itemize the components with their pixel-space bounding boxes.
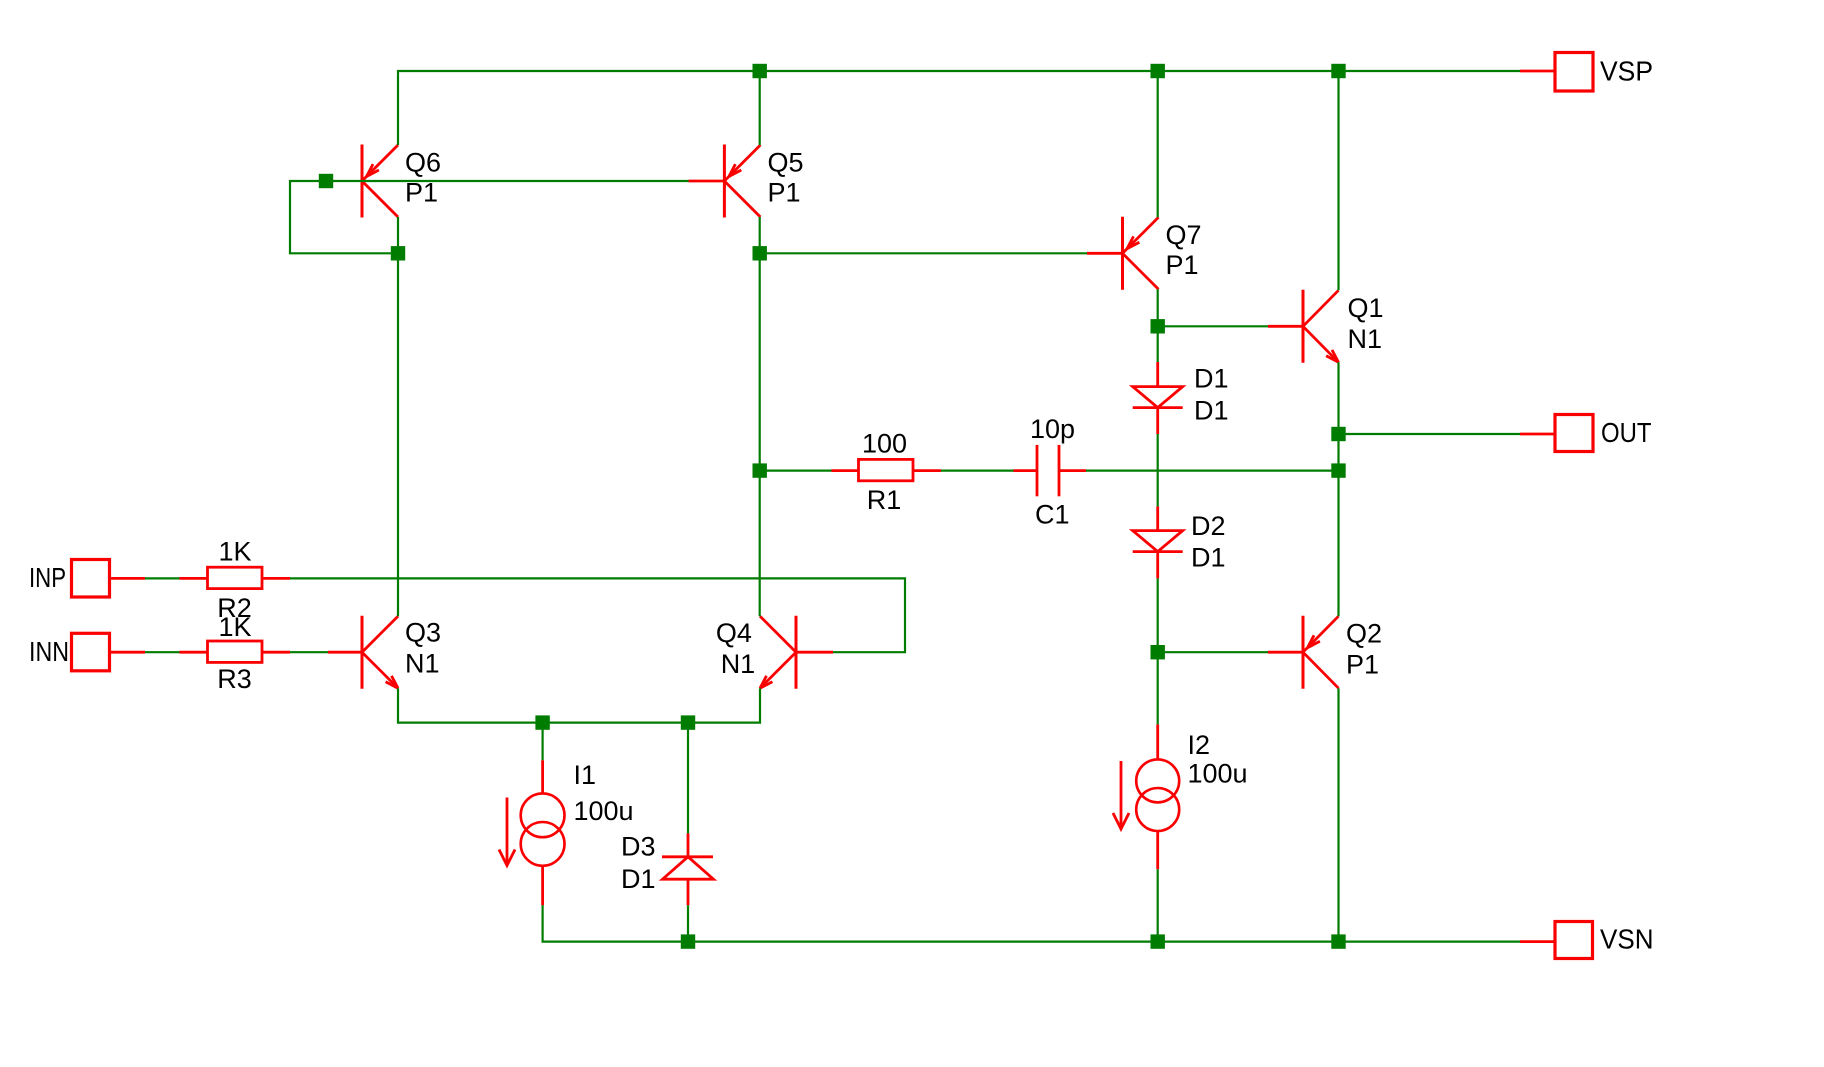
svg-text:I1: I1 [574, 760, 597, 790]
svg-text:P1: P1 [1346, 650, 1379, 680]
diode D3 (model D1, pointing up) [662, 833, 714, 905]
wire Q5 emitter column [759, 71, 761, 145]
wire Q1 emitter / OUT node / Q2 emitter column [1337, 362, 1339, 616]
transistor Q4 (NPN N1, mirrored) [760, 616, 833, 689]
port OUT [1520, 415, 1593, 452]
port INP [72, 560, 146, 598]
svg-text:10p: 10p [1030, 414, 1075, 444]
wire R2 to corner down to Q4 base [290, 578, 905, 652]
wire I1 bottom to VSN rail and rail to port [543, 905, 1520, 941]
junction C1 net / OUT column [1331, 463, 1345, 477]
port INN [72, 633, 146, 671]
wire R1 right pin to C1 left pin [941, 470, 1014, 472]
svg-text:R3: R3 [217, 664, 252, 694]
junction VSN rail / D3 [681, 934, 695, 948]
wire Q7 emitter column [1157, 71, 1159, 217]
svg-text:Q5: Q5 [768, 148, 804, 178]
junction Q7 collector / D1 / Q1 base [1151, 319, 1165, 333]
transistor Q2 (PNP P1) [1268, 616, 1339, 689]
transistor Q7 (PNP P1) [1087, 217, 1159, 290]
junction OUT node [1331, 427, 1345, 441]
wire R3 to Q3 base [290, 651, 328, 653]
junction top rail / Q7 emitter [1151, 64, 1165, 78]
svg-text:D1: D1 [1194, 364, 1229, 394]
wire Q6 base row [290, 180, 689, 182]
transistor Q1 (NPN N1) [1268, 290, 1339, 363]
current source I2 (100u) [1113, 724, 1179, 869]
svg-text:Q1: Q1 [1348, 293, 1384, 323]
wire OUT node to port [1339, 433, 1521, 435]
wire node to R1 left pin [760, 470, 832, 472]
junction tail rail / I1 [535, 715, 549, 729]
junction VSN rail / Q2 collector [1331, 934, 1345, 948]
svg-text:Q3: Q3 [405, 618, 441, 648]
diode D1 (model D1) [1133, 362, 1183, 434]
port VSP [1520, 53, 1593, 92]
wire Q6 collector column down to Q3 collector [397, 217, 399, 616]
svg-text:1K: 1K [218, 536, 251, 566]
wire Q7 collector to junction node [1157, 289, 1159, 362]
wire Q1 collector column [1337, 71, 1339, 290]
junction VSN rail / I2 [1151, 934, 1165, 948]
RED-LAYER [72, 53, 1594, 959]
capacitor C1 (10p) [1014, 445, 1087, 496]
wire I2 bottom to VSN rail [1157, 869, 1159, 941]
transistor Q6 (PNP P1) [362, 145, 398, 218]
transistor Q5 (PNP P1) [689, 145, 761, 218]
wire Q6 base-collector loop (left, bottom) [290, 180, 398, 253]
wire D1 cathode to D2 anode (crosses R1-C1 net) [1157, 434, 1159, 506]
svg-text:I2: I2 [1188, 730, 1211, 760]
svg-text:100u: 100u [1188, 759, 1248, 789]
port VSN [1520, 922, 1593, 959]
svg-text:OUT: OUT [1601, 417, 1652, 448]
svg-text:P1: P1 [1166, 250, 1199, 280]
wire junction to Q1 base [1158, 325, 1268, 327]
junction Q6 collector / loop bottom [391, 246, 405, 260]
svg-text:P1: P1 [768, 178, 801, 208]
wire Q5 collector junction to Q7 base [760, 252, 1087, 254]
svg-text:Q4: Q4 [716, 618, 752, 648]
svg-text:Q6: Q6 [405, 148, 441, 178]
GREEN-LAYER [145, 71, 1520, 942]
svg-text:N1: N1 [1348, 324, 1383, 354]
svg-text:Q7: Q7 [1166, 220, 1202, 250]
junction Q6 base loop [319, 174, 333, 188]
wire C1 right pin to OUT column [1086, 470, 1339, 472]
resistor R2 (1K) [180, 567, 291, 588]
svg-text:1K: 1K [218, 612, 251, 642]
junction top rail / Q1 collector [1331, 64, 1345, 78]
svg-text:D1: D1 [1191, 543, 1226, 573]
wire INN port to R3 [145, 651, 180, 653]
junction top rail / Q5 emitter [753, 64, 767, 78]
svg-text:D1: D1 [621, 864, 656, 894]
resistor R3 (1K) [180, 641, 291, 662]
svg-text:VSP: VSP [1600, 56, 1653, 87]
wire VSP top rail with corner down to Q6 emitter [398, 71, 1520, 145]
wire Q2 collector down to VSN rail [1337, 688, 1339, 941]
svg-text:D2: D2 [1191, 511, 1226, 541]
svg-text:INN: INN [29, 636, 69, 667]
TEXT-LAYER [29, 56, 1654, 955]
wire tail junction down to I1 [541, 723, 543, 761]
svg-text:100: 100 [862, 429, 907, 459]
wire INP port to R2 [145, 577, 180, 579]
svg-text:D1: D1 [1194, 396, 1229, 426]
diode D2 (model D1) [1133, 506, 1183, 578]
junction R1 left / Q5-Q4 column [753, 463, 767, 477]
svg-text:Q2: Q2 [1346, 619, 1382, 649]
wire tail rail Q3 emitter to Q4 emitter [398, 688, 760, 722]
junction tail rail / D3 [681, 715, 695, 729]
current source I1 (100u) [499, 760, 564, 905]
wire D2 cathode down to Q2 base node [1157, 578, 1159, 724]
svg-text:C1: C1 [1035, 500, 1070, 530]
JUNCTION-LAYER [319, 64, 1346, 949]
wire D3 bottom to VSN rail [687, 905, 689, 941]
wire tail junction down to D3 [687, 723, 689, 834]
svg-text:100u: 100u [574, 796, 634, 826]
wire node to Q2 base [1158, 651, 1268, 653]
resistor R1 (100) [832, 459, 942, 480]
transistor Q3 (NPN N1) [328, 616, 398, 689]
svg-text:R1: R1 [867, 485, 902, 515]
junction D2 / Q2 base / I2 [1151, 645, 1165, 659]
svg-text:D3: D3 [621, 831, 656, 861]
wire Q5 collector column down to Q4 collector [759, 217, 761, 616]
svg-text:INP: INP [29, 562, 66, 593]
svg-text:P1: P1 [405, 178, 438, 208]
svg-text:VSN: VSN [1600, 924, 1654, 955]
junction Q5 collector / Q7 base wire [753, 246, 767, 260]
svg-text:N1: N1 [405, 649, 440, 679]
svg-text:N1: N1 [721, 649, 756, 679]
